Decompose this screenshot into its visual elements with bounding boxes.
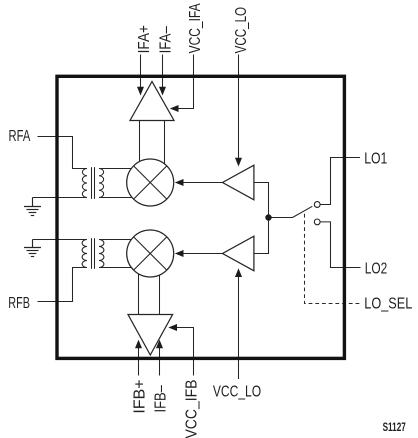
svg-text:IFA+: IFA+ xyxy=(136,25,153,53)
svg-text:IFA–: IFA– xyxy=(157,26,174,53)
svg-text:LO1: LO1 xyxy=(364,150,387,167)
svg-text:VCC_IFA: VCC_IFA xyxy=(187,3,204,53)
svg-text:VCC_LO: VCC_LO xyxy=(213,384,261,401)
svg-text:IFB–: IFB– xyxy=(152,385,169,412)
svg-text:RFA: RFA xyxy=(9,128,31,145)
svg-text:IFB+: IFB+ xyxy=(132,380,149,414)
svg-text:LO_SEL: LO_SEL xyxy=(364,296,412,313)
svg-text:S1127: S1127 xyxy=(383,422,406,434)
svg-text:VCC_IFB: VCC_IFB xyxy=(183,380,200,438)
svg-text:LO2: LO2 xyxy=(365,261,388,278)
svg-text:RFB: RFB xyxy=(8,295,30,312)
svg-text:VCC_LO: VCC_LO xyxy=(233,7,250,54)
